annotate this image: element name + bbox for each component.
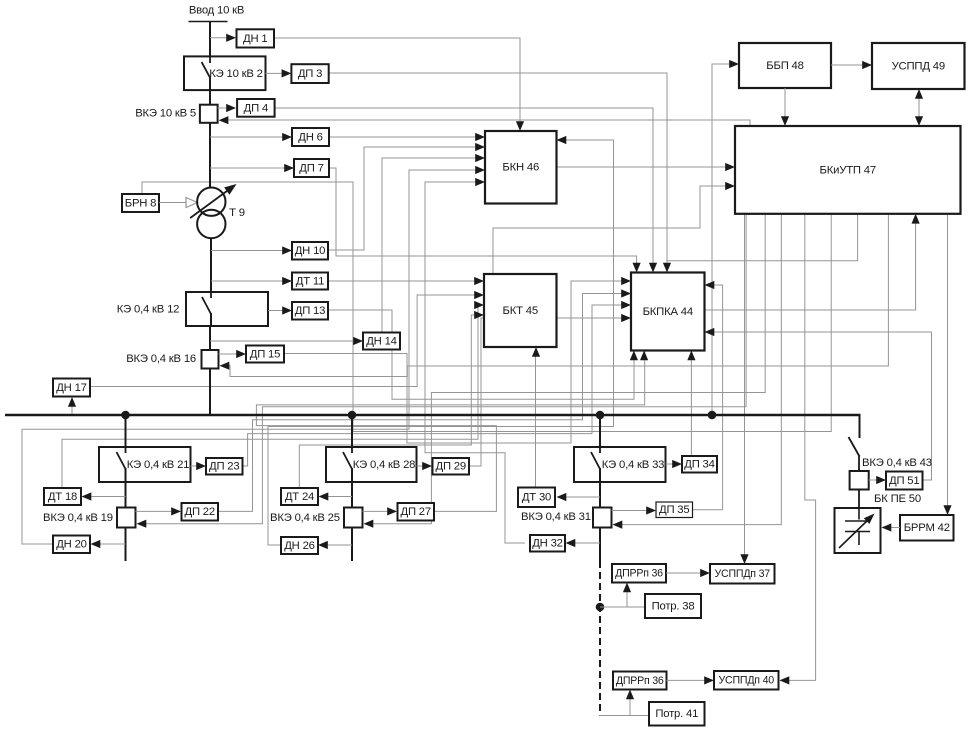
svg-text:ВКЭ 0,4 кВ 31: ВКЭ 0,4 кВ 31 <box>521 511 591 523</box>
wire ВКЭ43 to БК ПЕ 50 <box>858 490 860 509</box>
node junction power feed <box>708 411 717 420</box>
node arrow into БКПКА bottom-3 <box>687 351 695 361</box>
node arrow into ДН26 <box>318 541 328 549</box>
node arrow control into ВКЭ31 <box>613 521 623 529</box>
switch ВКЭ 0,4 кВ 19 <box>117 508 136 528</box>
svg-text:ДН 32: ДН 32 <box>532 538 563 550</box>
node arrow into ДП27 <box>387 507 397 515</box>
wire КЭ2 to ДП3 <box>266 72 285 74</box>
wire ВКЭ16 to ДП15 <box>219 353 239 355</box>
wire tap to ДТ11 <box>211 280 284 282</box>
node arrow into БКПКА bottom-1 <box>630 351 638 361</box>
node arrow into ДП23 <box>196 462 206 470</box>
wire feeder-1 tap to ДТ18 <box>89 496 126 498</box>
node arrow into ДТ11 <box>282 277 292 285</box>
wire ДП51 output to БКПКА44 right-2 <box>710 332 932 480</box>
node junction feeder-2 <box>348 411 357 420</box>
wire ДТ18 output to БКТ45 input-3 <box>62 305 478 488</box>
svg-text:ВКЭ 0,4 кВ 25: ВКЭ 0,4 кВ 25 <box>270 512 340 524</box>
node arrow into ДТ24 <box>319 492 329 500</box>
wire main line to ВКЭ5 <box>209 90 211 105</box>
svg-text:БКТ 45: БКТ 45 <box>503 305 538 317</box>
sensor ДПРРп 36 upper <box>612 564 666 583</box>
wire ДП7 output to БКПКА44 top-1 <box>329 168 637 270</box>
svg-text:БК ПЕ 50: БК ПЕ 50 <box>874 493 921 505</box>
svg-text:ДП 4: ДП 4 <box>244 102 268 114</box>
node arrow into ДП7 <box>284 164 294 172</box>
svg-text:ВКЭ 0,4 кВ 43: ВКЭ 0,4 кВ 43 <box>862 457 932 469</box>
sensor ДН 20 <box>53 536 90 554</box>
sensor ДП 22 <box>182 503 219 521</box>
sensor ДН 26 <box>281 537 318 554</box>
svg-text:ДП 15: ДП 15 <box>250 348 280 360</box>
wire ДП3 output to БКПКА44 top-3 <box>328 73 667 270</box>
wire ВКЭ5 to ДП4 <box>218 107 228 109</box>
node arrow control into ВКЭ25 <box>364 520 374 528</box>
wire ДП22 output to БКПКА44 input-2 <box>218 294 625 512</box>
wire ДН32 output to БКН46 input-5 <box>425 182 525 543</box>
svg-text:ДП 51: ДП 51 <box>889 475 919 487</box>
node arrow into БКН input-4 <box>475 166 485 174</box>
wire УСППД49 to БКиУТП47 double arrow <box>918 95 920 119</box>
regulator БРРМ 42 <box>900 515 954 541</box>
wire БКиУТП47 to ВКЭ16 control <box>226 214 888 377</box>
node junction on dashed line <box>596 603 605 612</box>
switch ВКЭ 0,4 кВ 25 <box>344 508 363 528</box>
wire ДТ30 output to БКТ45 bottom <box>535 351 537 487</box>
sensor ДП 51 <box>886 472 923 490</box>
node arrow into ДПРРп36 upper bottom <box>623 583 631 593</box>
svg-text:КЭ 10 кВ 2: КЭ 10 кВ 2 <box>209 68 262 80</box>
svg-text:ДП 35: ДП 35 <box>659 504 689 516</box>
node arrow into БКПКА input-2 <box>621 289 631 297</box>
sensor ДП 15 <box>246 346 284 363</box>
sensor ДП 27 <box>398 503 435 521</box>
wire ДП34 output to БКПКА44 bottom-3 <box>690 351 692 455</box>
wire ББП48 to УСППД49 <box>831 64 864 66</box>
sensor ДП 7 <box>294 159 329 177</box>
node junction feeder-3 <box>596 411 605 420</box>
wire feeder-1 upper <box>125 415 127 447</box>
sensor ДТ 24 <box>281 488 318 505</box>
node arrow into БКН input-5 <box>475 178 485 186</box>
wire ВКЭ31 to ДП35 <box>612 510 649 512</box>
wire ДП27 output to БКПКА44 bottom-2 <box>256 351 644 511</box>
wire feeder-2 tap to ДТ24 <box>326 496 352 498</box>
node arrow from БКиУТП into УСППДп37 top <box>740 554 748 564</box>
node arrow into ДН1 <box>226 34 236 42</box>
wire tap to ДП7 <box>210 167 286 169</box>
wire ДПРРп36 to УСППДп37 <box>666 572 702 574</box>
switch ВКЭ 0,4 кВ 43 <box>850 471 869 490</box>
switch ВКЭ 10 кВ 5 <box>200 105 218 123</box>
wire riser to ДПРРп36 upper <box>626 589 628 607</box>
node arrow control into ВКЭ5 <box>219 116 229 124</box>
wire ДН6 output to БКН46 input-1 <box>329 136 478 138</box>
svg-text:ДТ 24: ДТ 24 <box>285 491 314 503</box>
svg-text:КЭ 0,4 кВ 28: КЭ 0,4 кВ 28 <box>353 459 415 471</box>
node arrow into ДПРРп36 lower bottom <box>626 690 634 700</box>
svg-text:ДН 26: ДН 26 <box>284 540 315 552</box>
wire bus right end down <box>859 415 861 438</box>
wire ДП13 output to БКПКА44 bottom-1 <box>328 310 634 399</box>
svg-text:УСППД 49: УСППД 49 <box>892 60 945 72</box>
svg-text:ДН 17: ДН 17 <box>56 382 87 394</box>
wire main line КЭ12 to ВКЭ16 <box>209 326 211 350</box>
wire ДП4 output to БКПКА44 top-2 <box>275 108 653 270</box>
wire БКиУТП47 to УСППДп40 <box>785 214 816 681</box>
wire ДН14 output to БКН46 input-3 <box>382 158 478 332</box>
svg-text:ДН 10: ДН 10 <box>295 245 326 257</box>
svg-text:БКН 46: БКН 46 <box>502 162 539 174</box>
wire БКТ45 output to БКиУТП47 input-2 <box>493 186 728 274</box>
wire feeder-1 middle <box>125 468 127 507</box>
svg-text:ДН 6: ДН 6 <box>298 131 322 143</box>
svg-text:ДП 3: ДП 3 <box>298 68 322 80</box>
wire БКПКА44 output to БКиУТП47 bottom <box>704 219 916 310</box>
wire tap to ДН6 <box>210 136 284 138</box>
node arrow into БКН right <box>557 136 567 144</box>
switch ВКЭ 0,4 кВ 31 <box>593 508 612 528</box>
svg-text:ДТ 18: ДТ 18 <box>48 491 77 503</box>
svg-text:ДП 23: ДП 23 <box>209 461 239 473</box>
sensor ДН 14 <box>363 333 400 350</box>
wire БКиУТП47 to БРРМ42 <box>947 214 949 510</box>
wire ДН26 output to БКН46 right input <box>268 140 614 545</box>
node arrow into ДП29 <box>422 462 432 470</box>
sensor ДП 13 <box>292 302 328 320</box>
svg-text:ДПРРп 36: ДПРРп 36 <box>615 568 663 580</box>
node arrow into БКТ bottom <box>532 347 540 357</box>
sensor ДП 34 <box>682 456 717 473</box>
sensor ДН 1 <box>237 29 275 47</box>
svg-text:Ввод 10 кВ: Ввод 10 кВ <box>189 4 244 16</box>
load Потр. 38 <box>645 594 701 618</box>
node arrow into ДП51 <box>876 476 886 484</box>
svg-text:КЭ 0,4 кВ 33: КЭ 0,4 кВ 33 <box>602 459 664 471</box>
wire main line ВКЭ5 to transformer <box>209 123 211 188</box>
node arrow into ДП3 <box>282 69 292 77</box>
wire ДН1 output to БКН46 top <box>274 38 520 128</box>
wire feeder-3 dashed distribution line <box>599 561 601 716</box>
wire feeder-3 tap to ДТ30 <box>563 496 600 498</box>
node arrow into УСППДп37 <box>700 569 710 577</box>
wire ВКЭ25 to ДП27 <box>363 510 390 512</box>
svg-text:ДПРРп 36: ДПРРп 36 <box>616 675 664 687</box>
wire БКиУТП47 to ВКЭ19 control <box>142 214 746 524</box>
node arrow into БКН input-2 <box>475 143 485 151</box>
wire ДПРРп36 lower to УСППДп40 <box>667 679 707 681</box>
svg-text:УСППДп 40: УСППДп 40 <box>719 675 775 687</box>
device УСППД 49 <box>872 43 965 89</box>
sensor ДТ 30 <box>518 488 555 508</box>
wire dashed line to Потр38 <box>600 606 645 608</box>
load Потр. 41 <box>649 702 705 726</box>
sensor ДН 32 <box>530 535 565 552</box>
wire feeder-1 lower <box>125 528 127 562</box>
svg-text:ДП 29: ДП 29 <box>436 461 466 473</box>
node arrow into БКиУТП input-2 <box>725 182 735 190</box>
transformer Т 9 <box>197 188 225 216</box>
node arrow into ДН6 <box>282 133 292 141</box>
node arrow into БКиУТП input-1 <box>725 163 735 171</box>
wire power feed bus to ББП48 <box>712 64 732 415</box>
wire feeder-2 middle <box>351 468 353 507</box>
node arrow ББП48 into БКиУТП top <box>781 116 789 126</box>
node arrow into БКПКА top-3 <box>663 263 671 273</box>
node arrow into БКПКА top-2 <box>649 263 657 273</box>
sensor ДПРРп 36 lower <box>613 672 667 690</box>
node arrow into БКПКА bottom-2 <box>640 351 648 361</box>
node arrow into БКТ input-4 <box>474 311 484 319</box>
wire main line ВКЭ16 to bus <box>209 369 211 416</box>
wire КЭ21 to ДП23 <box>191 465 199 467</box>
svg-text:Потр. 41: Потр. 41 <box>655 708 698 720</box>
wire bus tap up to ДН17 <box>71 404 73 415</box>
svg-text:ДП 7: ДП 7 <box>299 162 323 174</box>
svg-text:БРН 8: БРН 8 <box>125 197 157 209</box>
node arrow into УСППД49 <box>862 61 872 69</box>
svg-text:ДН 14: ДН 14 <box>366 335 397 347</box>
switch КЭ 0,4 кВ 28 <box>326 447 417 482</box>
wire ВКЭ5 control from БКиУТП47 <box>227 120 750 126</box>
svg-text:БКиУТП 47: БКиУТП 47 <box>820 164 876 176</box>
wire ВКЭ19 to ДП22 <box>136 510 174 512</box>
wire right feeder to ВКЭ43 <box>858 455 860 471</box>
node arrow into ДН32 <box>566 539 576 547</box>
switch КЭ 0,4 кВ 21 <box>99 447 191 482</box>
wire БРН8 control from БКиУТП47 <box>142 182 831 432</box>
sensor ДП 23 <box>206 458 243 475</box>
wire ДП35 output to БКПКА44 right-1 <box>692 285 723 510</box>
sensor ДН 17 <box>53 379 90 397</box>
node arrow into БКиУТП bottom <box>912 214 920 224</box>
node arrow into БКПКА right-1 <box>705 281 715 289</box>
wire riser to ДПРРп36 lower <box>629 696 631 716</box>
node arrow into ДТ18 <box>82 492 92 500</box>
wire ДН17 output to БКТ45 input-2 <box>90 295 478 387</box>
node arrow into ДП22 <box>171 507 181 515</box>
power block ББП 48 <box>739 43 831 88</box>
svg-text:ВКЭ 10 кВ 5: ВКЭ 10 кВ 5 <box>135 107 196 119</box>
svg-text:УСППДп 37: УСППДп 37 <box>715 568 771 580</box>
svg-text:Т 9: Т 9 <box>229 207 245 219</box>
wire ДП15 output to БКПКА44 input-1 <box>284 281 625 443</box>
node arrow from БКиУТП into БРРМ42 top <box>943 505 951 515</box>
node arrow into ДП15 <box>236 350 246 358</box>
node arrow into ДП34 <box>672 460 682 468</box>
node arrow into БКН input-3 <box>475 154 485 162</box>
switch disconnect right feeder <box>849 437 860 457</box>
wire КЭ28 to ДП29 <box>417 465 425 467</box>
node arrow into БКТ input-1 <box>474 277 484 285</box>
wire ВКЭ43 to ДП51 <box>869 479 878 481</box>
block БКиУТП 47 <box>735 126 961 214</box>
wire tap to ДН14 <box>210 340 355 342</box>
wire feeder-3 lower <box>599 528 601 562</box>
wire БКиУТП47 to ВКЭ25 control <box>369 214 765 524</box>
sensor ДТ 11 <box>292 273 328 290</box>
svg-text:КЭ 0,4 кВ 21: КЭ 0,4 кВ 21 <box>127 459 189 471</box>
node arrow into ДП4 <box>226 104 236 112</box>
svg-text:БКПКА 44: БКПКА 44 <box>643 306 693 318</box>
svg-text:ДН 20: ДН 20 <box>56 539 87 551</box>
node junction feeder-1 <box>121 411 130 420</box>
wire БКиУТП47 to ВКЭ31 control <box>618 214 781 525</box>
node arrow into БКН top <box>516 121 524 131</box>
sensor ДП 35 <box>656 502 693 518</box>
wire tap to ДН1 <box>210 37 228 39</box>
wire ДТ11 output to БКТ45 input-1 <box>328 280 478 282</box>
wire feeder-1 tap to ДН20 <box>97 543 126 545</box>
node arrow into БКПКА right-2 <box>705 328 715 336</box>
svg-text:Потр. 38: Потр. 38 <box>652 600 695 612</box>
block БКН 46 <box>485 131 557 204</box>
node arrow into ДН17 <box>68 397 76 407</box>
svg-text:ДТ 30: ДТ 30 <box>522 492 551 504</box>
node arrow into УСППДп40 <box>704 676 714 684</box>
wire БКН46 output to БКиУТП47 input-1 <box>556 166 728 168</box>
capacitor bank БК ПЕ 50 <box>835 508 881 553</box>
wire ДН10 output to БКН46 input-2 <box>328 147 478 250</box>
wire feeder-3 tap to ДН32 <box>572 542 600 544</box>
svg-text:ДН 1: ДН 1 <box>243 33 267 45</box>
node arrow УСППД49 into БКиУТП top <box>915 116 923 126</box>
node arrow into БКПКА input-1 <box>621 277 631 285</box>
node arrow into ДН20 <box>91 540 101 548</box>
svg-text:ДТ 11: ДТ 11 <box>296 275 324 287</box>
sensor ДН 10 <box>292 242 328 260</box>
node arrow into ДН10 <box>282 246 292 254</box>
wire БРН8 to transformer with open arrow <box>159 202 186 204</box>
wire ДП29 output to БКПКА44 input-4 <box>469 318 625 466</box>
wire dashed line end to Потр41 <box>600 715 649 717</box>
node arrow into ДП35 <box>646 506 656 514</box>
wire feeder-3 upper <box>599 415 601 447</box>
svg-text:БРРМ 42: БРРМ 42 <box>904 522 950 534</box>
wire feeder-2 upper <box>351 415 353 447</box>
block БКТ 45 <box>484 274 557 347</box>
wire БРРМ42 to БК ПЕ 50 <box>888 527 900 529</box>
node arrow into БКПКА top-1 <box>633 263 641 273</box>
wire БКиУТП47 to УСППДп37 <box>744 214 746 558</box>
node arrow control into ВКЭ19 <box>137 520 147 528</box>
switch КЭ 0,4 кВ 12 <box>186 292 268 326</box>
node arrow into БКН input-1 <box>475 133 485 141</box>
node arrow into ББП48 <box>729 60 739 68</box>
node arrow into ДТ30 <box>557 493 567 501</box>
node arrow into УСППД49 bottom <box>915 89 923 99</box>
svg-text:ББП 48: ББП 48 <box>766 60 803 72</box>
sensor ДН 6 <box>292 128 329 146</box>
sensor ДП 4 <box>237 99 275 117</box>
node arrow into БКПКА input-4 <box>621 314 631 322</box>
wire main 10kV line upper <box>209 22 211 57</box>
wire main 0.4kV bus <box>5 414 861 417</box>
wire tap to ДН10 <box>211 250 284 252</box>
svg-text:КЭ 0,4 кВ 12: КЭ 0,4 кВ 12 <box>117 303 179 315</box>
svg-text:ВКЭ 0,4 кВ 19: ВКЭ 0,4 кВ 19 <box>43 512 113 524</box>
sensor ДТ 18 <box>44 488 81 505</box>
sensor ДП 29 <box>433 458 470 475</box>
wire КЭ33 to ДП34 <box>666 463 675 465</box>
node arrow into БКТ input-2 <box>474 291 484 299</box>
wire ДН20 output to БКН46 input-4 <box>22 170 478 544</box>
wire main line transformer to КЭ12 <box>210 238 212 292</box>
wire БКиУТП47 stub to node near БКПКА44 <box>667 214 858 261</box>
switch ВКЭ 0,4 кВ 16 <box>202 350 219 369</box>
wire КЭ12 to ДП13 <box>268 310 284 312</box>
node arrow control into ВКЭ16 <box>220 362 230 370</box>
node arrow into ДН14 <box>353 337 363 345</box>
wire ДП23 output to БКПКА44 input-3 <box>242 305 625 466</box>
wire ББП48 down to БКиУТП47 <box>784 88 786 119</box>
device УСППДп 40 <box>714 671 779 690</box>
svg-text:ДП 27: ДП 27 <box>401 506 431 518</box>
svg-text:ВКЭ 0,4 кВ 16: ВКЭ 0,4 кВ 16 <box>126 353 196 365</box>
svg-text:ДП 34: ДП 34 <box>684 459 714 471</box>
regulator БРН 8 <box>122 194 159 212</box>
switch КЭ 0,4 кВ 33 <box>574 447 666 482</box>
node arrow control into УСППДп40 right <box>780 676 790 684</box>
wire feeder-2 lower <box>351 528 353 562</box>
node arrow into ДП13 <box>282 306 292 314</box>
wire feeder-3 middle <box>599 468 601 507</box>
node arrow into БКТ input-3 <box>474 301 484 309</box>
node arrow into БКПКА input-3 <box>621 301 631 309</box>
device УСППДп 37 <box>710 564 775 584</box>
wire input terminal underline <box>189 21 228 23</box>
node arrow into БК ПЕ 50 right <box>882 523 892 531</box>
sensor ДП 3 <box>291 64 328 83</box>
svg-text:ДП 22: ДП 22 <box>185 506 215 518</box>
block БКПКА 44 <box>631 273 705 351</box>
svg-text:ДП 13: ДП 13 <box>295 305 325 317</box>
wire ДТ24 output to БКТ45 input-4 <box>299 315 478 488</box>
wire feeder-2 tap to ДН26 <box>325 544 353 546</box>
switch КЭ 10 кВ 2 <box>184 56 266 90</box>
